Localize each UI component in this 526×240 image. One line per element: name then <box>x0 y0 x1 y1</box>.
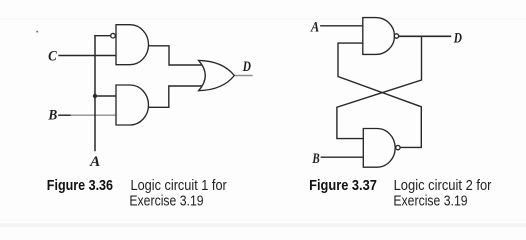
wire U1 output to OR <box>149 46 207 65</box>
wire C input <box>59 55 116 57</box>
svg-text:D: D <box>453 30 462 46</box>
bubble U4 output <box>394 34 398 38</box>
wire A input fig2 <box>321 25 363 27</box>
svg-text:Exercise 3.19: Exercise 3.19 <box>129 194 203 210</box>
wire U4 lower input feedback <box>338 43 421 147</box>
svg-text:B: B <box>312 151 320 167</box>
svg-text:B: B <box>48 108 58 124</box>
wire D output and feedback to U5 <box>399 35 451 37</box>
and gate U2 <box>116 85 149 125</box>
wire A vertical <box>94 36 96 151</box>
scan band faint top <box>0 18 526 20</box>
wire junction to gate U2 <box>95 95 116 97</box>
wire B input fig2 <box>321 156 363 158</box>
and gate U1 <box>116 25 148 65</box>
speck dot <box>36 31 38 33</box>
nand gate U5 <box>363 129 395 168</box>
svg-text:Exercise 3.19: Exercise 3.19 <box>393 194 467 210</box>
junction node dot <box>93 94 97 98</box>
bubble U5 output <box>396 145 400 149</box>
wire U2 output to OR <box>149 86 207 107</box>
svg-text:C: C <box>48 49 57 65</box>
inverter bubble U1 input <box>111 33 116 38</box>
wire B input dark stub <box>59 114 70 116</box>
svg-text:Figure 3.37: Figure 3.37 <box>309 178 377 194</box>
svg-text:A: A <box>310 19 319 35</box>
wire B input <box>59 114 116 116</box>
wire A to bubble elbow <box>95 35 111 37</box>
svg-text:A: A <box>89 154 100 170</box>
svg-text:Logic circuit 1 for: Logic circuit 1 for <box>131 178 227 194</box>
wire D output fig1 <box>234 75 252 77</box>
svg-text:Logic circuit 2 for: Logic circuit 2 for <box>394 178 492 194</box>
nand gate U4 <box>363 18 395 55</box>
scan band bottom <box>0 218 526 221</box>
svg-text:Figure 3.36: Figure 3.36 <box>47 178 113 194</box>
or gate U3 <box>199 60 235 90</box>
wire D feedback vertical and diagonal <box>337 36 422 138</box>
svg-text:D: D <box>242 59 251 75</box>
